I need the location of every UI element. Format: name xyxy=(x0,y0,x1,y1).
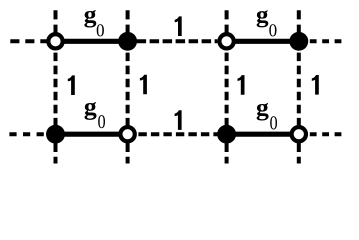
wire: vertical dashed lead above column 3 xyxy=(225,10,229,36)
wire: vertical dashed bond column 2 (between rows) xyxy=(126,53,130,126)
wire: vertical dashed lead above column 1 xyxy=(54,10,58,36)
wire: vertical dashed lead below column 3 xyxy=(225,139,229,163)
wire: row 2 solid bond g0 (right pair) xyxy=(227,132,299,137)
wire: row 2 left dashed lead xyxy=(9,132,46,136)
wire: vertical dashed lead below column 2 xyxy=(126,139,130,163)
node B sublattice site (filled), row 2 column 1 xyxy=(46,125,65,144)
wire: row 2 solid bond g0 (left pair) xyxy=(56,132,128,137)
wire: row 1 middle dashed bond xyxy=(137,39,218,43)
wire: row 1 solid bond g0 (left pair) xyxy=(56,39,128,44)
wire: vertical dashed bond column 1 (between rows) xyxy=(54,53,58,126)
label 1 coupling, vertical bond column 2 xyxy=(140,75,147,95)
node A sublattice site (open), row 1 column 1 xyxy=(48,34,62,48)
node B sublattice site (filled), row 2 column 3 xyxy=(217,125,236,144)
label 1 coupling, row 2 middle bond xyxy=(175,110,182,130)
label g0 coupling, row 1 left bond xyxy=(84,10,104,36)
node A sublattice site (open), row 2 column 2 xyxy=(120,127,134,141)
label 1 coupling, vertical bond column 1 xyxy=(68,75,75,95)
wire: row 1 left dashed lead xyxy=(10,39,47,43)
label g0 coupling, row 1 right bond xyxy=(257,10,277,36)
wire: row 2 middle dashed bond xyxy=(138,132,217,136)
label g0 coupling, row 2 right bond xyxy=(257,103,277,130)
wire: row 1 solid bond g0 (right pair) xyxy=(227,39,299,44)
wire: vertical dashed bond column 4 (between rows) xyxy=(297,53,301,126)
wire: vertical dashed lead above column 2 xyxy=(126,10,130,36)
wire: vertical dashed lead above column 4 xyxy=(297,10,301,36)
node A sublattice site (open), row 1 column 3 xyxy=(219,34,233,48)
wire: vertical dashed lead below column 1 xyxy=(54,139,58,163)
label 1 coupling, vertical bond column 4 xyxy=(312,75,319,95)
node B sublattice site (filled), row 1 column 2 xyxy=(118,32,137,51)
node A sublattice site (open), row 2 column 4 xyxy=(292,127,306,141)
wire: vertical dashed bond column 3 (between rows) xyxy=(225,53,229,126)
wire: row 2 right dashed lead xyxy=(310,132,342,136)
wire: vertical dashed lead below column 4 xyxy=(297,139,301,163)
label 1 coupling, row 1 middle bond xyxy=(175,16,182,36)
node B sublattice site (filled), row 1 column 4 xyxy=(289,32,308,51)
label g0 coupling, row 2 left bond xyxy=(85,102,106,128)
label 1 coupling, vertical bond column 3 xyxy=(238,75,245,95)
wire: row 1 right dashed lead xyxy=(310,39,342,43)
